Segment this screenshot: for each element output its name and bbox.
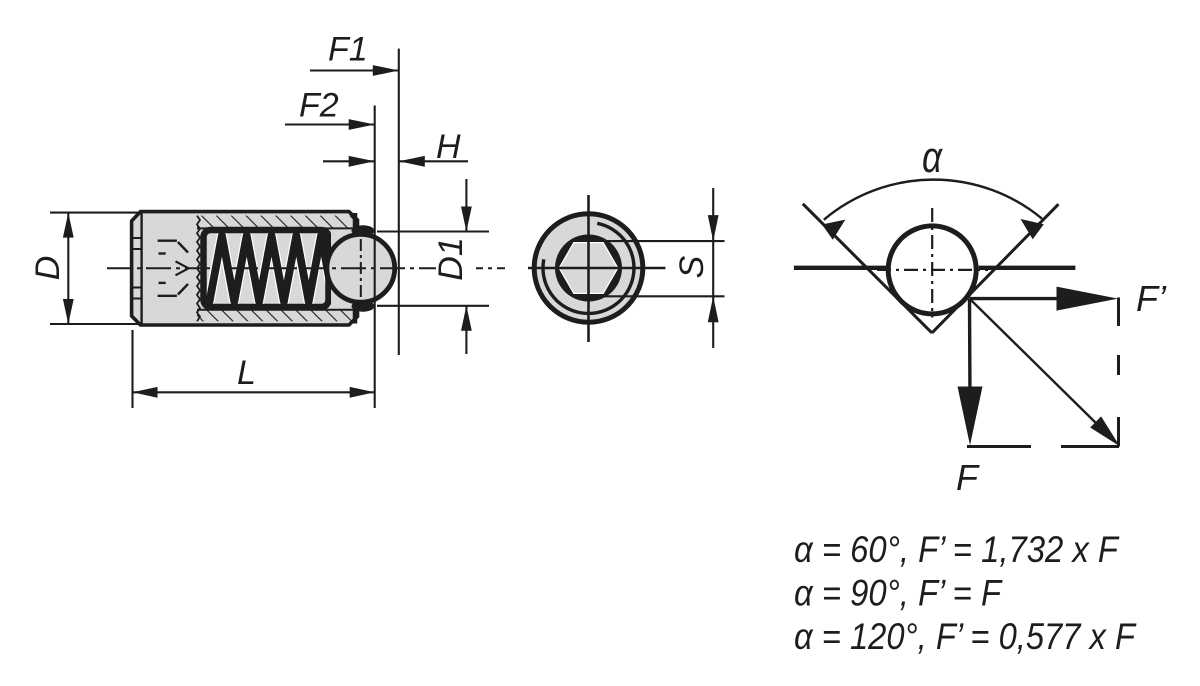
svg-text:F2: F2 [299, 86, 339, 124]
svg-text:S: S [673, 255, 711, 278]
svg-text:D: D [29, 256, 67, 281]
svg-text:L: L [237, 354, 256, 392]
svg-text:α = 90°, F’ = F: α = 90°, F’ = F [794, 573, 1003, 614]
svg-text:α: α [922, 133, 944, 182]
svg-text:α = 120°, F’ = 0,577 x F: α = 120°, F’ = 0,577 x F [794, 616, 1137, 657]
svg-text:α = 60°, F’ = 1,732 x F: α = 60°, F’ = 1,732 x F [794, 529, 1120, 570]
svg-text:H: H [436, 128, 461, 166]
svg-text:F’: F’ [1136, 278, 1167, 319]
svg-text:D1: D1 [432, 237, 470, 280]
svg-text:F: F [956, 457, 980, 498]
svg-text:F1: F1 [328, 31, 368, 69]
